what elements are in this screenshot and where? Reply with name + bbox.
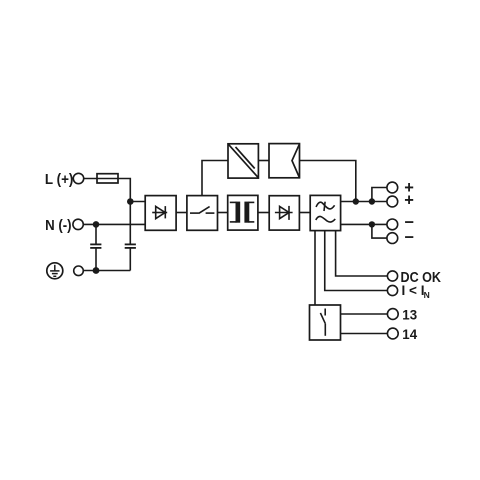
svg-text:I < I: I < I xyxy=(402,282,425,298)
svg-text:N (-): N (-) xyxy=(45,217,72,234)
svg-text:L (+): L (+) xyxy=(45,171,74,188)
svg-text:13: 13 xyxy=(402,306,417,322)
svg-text:N: N xyxy=(424,290,430,300)
svg-text:14: 14 xyxy=(402,326,417,342)
svg-text:+: + xyxy=(404,192,414,210)
svg-text:−: − xyxy=(404,229,414,247)
